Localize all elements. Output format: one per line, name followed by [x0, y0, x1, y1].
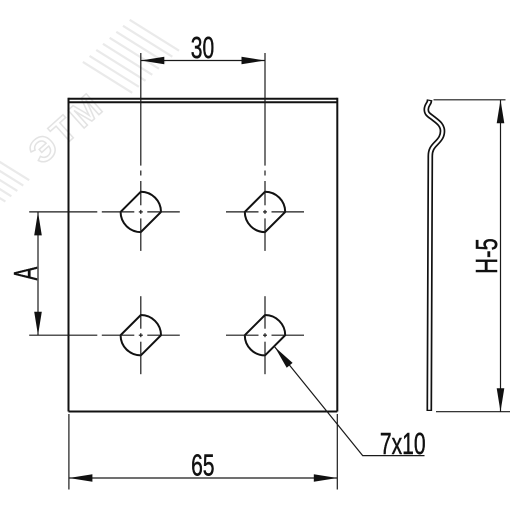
- extension line 65 right: [336, 414, 338, 490]
- arrow H-5 down: [497, 388, 505, 412]
- arrow leader 7x10: [275, 347, 293, 368]
- hole top-left: [121, 192, 161, 232]
- dimension line H-5: [500, 100, 502, 412]
- extension line 65 left: [68, 414, 70, 490]
- extension line H-5 top: [434, 99, 506, 101]
- arrow 30 right: [242, 57, 266, 65]
- watermark ETM logo: [0, 9, 180, 213]
- arrow H-5 up: [497, 100, 505, 124]
- plate front view outline: [69, 98, 338, 412]
- arrow A up: [34, 212, 42, 236]
- centerline vertical bottom-right hole: [264, 296, 266, 329]
- dimension line A: [37, 212, 39, 335]
- plate left edge: [68, 98, 70, 412]
- hole bottom-left: [121, 315, 161, 355]
- svg-text:ЭТМ: ЭТМ: [21, 84, 112, 171]
- dimension line 65: [69, 477, 337, 479]
- hole bottom-right: [245, 315, 285, 355]
- centerline horizontal top-left hole + A dim extension: [29, 211, 97, 213]
- extension line 30 left + centerline vertical top-left hole: [140, 53, 142, 166]
- svg-text:65: 65: [191, 448, 214, 483]
- leader line 7x10: [275, 347, 425, 456]
- extension line 30 right + centerline vertical top-right hole: [264, 53, 266, 166]
- centerline horizontal bottom-right hole: [226, 334, 259, 336]
- side profile strip: [426, 100, 442, 411]
- svg-text:7x10: 7x10: [380, 426, 426, 461]
- centerline horizontal bottom-left hole + A dim extension: [29, 334, 97, 336]
- svg-text:30: 30: [191, 30, 214, 65]
- centerline horizontal top-right hole: [226, 211, 259, 213]
- arrow 65 left: [69, 474, 93, 482]
- extension line H-5 bottom: [436, 411, 510, 413]
- plate top edge double line: [69, 98, 338, 100]
- arrow 30 left: [141, 57, 165, 65]
- svg-text:H-5: H-5: [469, 238, 504, 274]
- arrows: [34, 57, 504, 482]
- arrow A down: [34, 312, 42, 336]
- arrow 65 right: [314, 474, 338, 482]
- hole top-right: [245, 192, 285, 232]
- plate bottom edge: [69, 411, 338, 413]
- dimension line 30: [141, 60, 265, 62]
- plate right edge: [336, 98, 338, 412]
- svg-text:A: A: [7, 266, 44, 280]
- centerline vertical bottom-left hole: [140, 296, 142, 329]
